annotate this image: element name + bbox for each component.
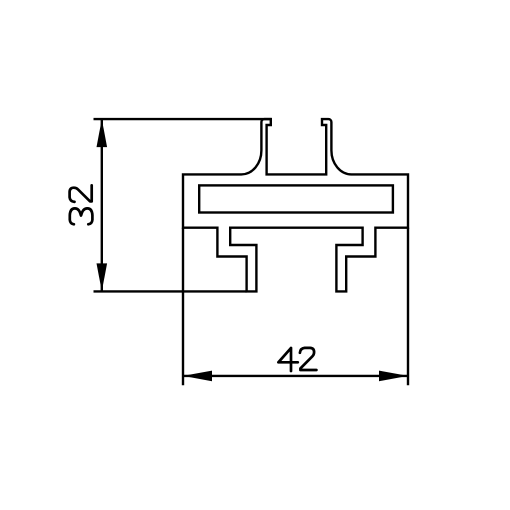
- extension line left (42): [182, 228, 184, 386]
- dimension line 32: [101, 119, 103, 291]
- dimension text 42 (CAD monoline digits): [278, 348, 316, 371]
- arrowhead right (42): [379, 371, 408, 382]
- arrowhead down (32): [97, 263, 108, 291]
- extension line right (42): [407, 228, 409, 386]
- inner slot rectangle: [199, 185, 393, 212]
- dimension line 42: [183, 375, 408, 377]
- profile outline (aluminium extrusion cross-section): [183, 119, 408, 291]
- extension line bottom (32): [94, 290, 247, 292]
- arrowhead left (42): [183, 371, 212, 382]
- arrowhead up (32): [97, 119, 108, 147]
- extension line top (32): [94, 118, 272, 120]
- dimension text 32 (rotated, CAD monoline digits): [70, 185, 93, 224]
